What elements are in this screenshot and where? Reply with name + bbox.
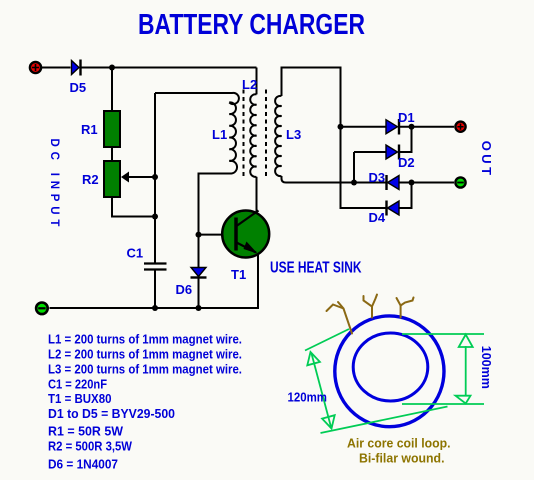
svg-text:L1: L1 (212, 127, 227, 142)
svg-text:R2: R2 (82, 172, 99, 187)
svg-text:BATTERY CHARGER: BATTERY CHARGER (138, 9, 365, 41)
svg-text:D6: D6 (176, 282, 193, 297)
svg-text:L3 = 200 turns of 1mm magnet: L3 = 200 turns of 1mm magnet wire. (48, 363, 242, 377)
svg-text:D1: D1 (398, 110, 415, 125)
svg-text:Air core coil loop.: Air core coil loop. (347, 436, 451, 450)
svg-text:C1: C1 (127, 246, 144, 261)
svg-text:L2: L2 (242, 77, 257, 92)
svg-text:USE HEAT SINK: USE HEAT SINK (270, 260, 362, 277)
svg-text:D6 = 1N4007: D6 = 1N4007 (48, 458, 118, 472)
svg-text:D4: D4 (369, 210, 386, 225)
svg-text:R2 = 500R 3,5W: R2 = 500R 3,5W (48, 440, 132, 454)
svg-text:L2 = 200 turns of 1mm magnet: L2 = 200 turns of 1mm magnet wire. (48, 348, 242, 362)
svg-text:D5: D5 (70, 80, 87, 95)
svg-text:L3: L3 (286, 127, 301, 142)
svg-text:D2: D2 (398, 155, 415, 170)
svg-text:R1 = 50R 5W: R1 = 50R 5W (48, 425, 123, 439)
svg-text:D3: D3 (369, 170, 386, 185)
svg-text:C1 = 220nF: C1 = 220nF (48, 378, 107, 392)
svg-text:100mm: 100mm (479, 346, 494, 389)
svg-text:T1 = BUX80: T1 = BUX80 (48, 392, 112, 406)
svg-text:120mm: 120mm (288, 391, 328, 405)
svg-text:Bi-filar wound.: Bi-filar wound. (359, 452, 445, 466)
svg-text:D1 to D5 = BYV29-500: D1 to D5 = BYV29-500 (48, 407, 175, 421)
svg-text:OUT: OUT (479, 141, 494, 179)
svg-text:R1: R1 (81, 122, 98, 137)
svg-text:L1 = 200 turns of 1mm magnet: L1 = 200 turns of 1mm magnet wire. (48, 333, 242, 347)
svg-text:T1: T1 (231, 267, 246, 282)
svg-text:DC INPUT: DC INPUT (48, 139, 60, 232)
